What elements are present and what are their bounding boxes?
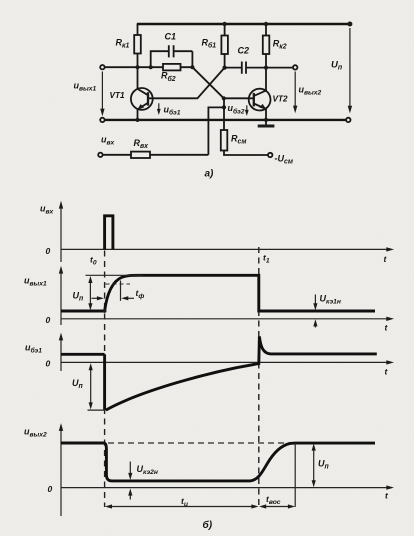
wire VT2 collector to output terminal: [266, 67, 293, 69]
svg-text:б): б): [203, 519, 213, 531]
label uбэ1: [164, 104, 181, 116]
arrow Uп D2: [88, 276, 92, 311]
svg-text:0: 0: [46, 246, 51, 256]
terminal uвых1 upper: [100, 65, 104, 69]
arrow uбэ1 measurement: [157, 103, 161, 115]
node top rail terminal (+Uп): [347, 22, 352, 27]
svg-text:0: 0: [48, 484, 53, 494]
label 0 D2: [46, 315, 51, 325]
terminal uвых2 upper: [293, 65, 297, 69]
ground: [258, 120, 275, 126]
node VT1 emitter junction: [135, 118, 139, 122]
label t D1: [384, 254, 388, 264]
waveform uвых2: [61, 443, 375, 481]
capacitor C2: [225, 62, 266, 74]
label t D4: [385, 491, 389, 501]
label uвых1 axis D2: [24, 276, 47, 288]
resistor R_к1: [134, 24, 141, 89]
wire VT2 base: [224, 97, 254, 99]
axis D1 horizontal t: [61, 247, 394, 251]
arrow tвос span: [259, 504, 295, 508]
wire tф dashed reference: [106, 283, 131, 285]
axis D3 horizontal t: [61, 360, 394, 364]
node left of C1 loop: [149, 65, 153, 69]
svg-text:VT2: VT2: [273, 94, 288, 103]
label -Uсм: [275, 153, 293, 165]
label Rсм: [231, 133, 246, 145]
label t0: [90, 255, 97, 267]
label Uп D4: [318, 459, 330, 471]
label Uкэ1н: [320, 293, 341, 305]
resistor R_б1: [221, 24, 228, 68]
label VT2: [273, 94, 288, 103]
svg-text:C2: C2: [238, 46, 250, 56]
label t D2: [385, 323, 389, 333]
terminal bottom right: [346, 118, 350, 122]
label Uп: [331, 59, 343, 71]
waveform uвых1: [61, 275, 375, 311]
terminal uвх input: [98, 153, 102, 157]
node riser junction: [222, 105, 226, 109]
axis D2 vertical: [59, 266, 63, 325]
transistor VT1: [131, 88, 153, 120]
wire tф tick: [120, 281, 122, 301]
label Uкэ2н: [137, 464, 158, 476]
node right of C1 loop: [190, 65, 194, 69]
wire collector VT1 to output terminal: [105, 66, 151, 68]
label б): [203, 519, 213, 531]
arrow uвых2 measurement: [293, 72, 297, 114]
label tи: [181, 496, 188, 508]
svg-text:а): а): [205, 169, 215, 180]
wire cross-coupling C1 node to VT2 base: [192, 67, 223, 98]
node VT2 base junction: [222, 96, 226, 100]
resistor R_к2: [263, 24, 270, 91]
node Rб1 bottom junction: [223, 66, 227, 70]
label t D3: [385, 367, 389, 377]
arrow Uп D4: [312, 444, 316, 488]
label 0 D4: [48, 484, 53, 494]
label uвых1: [74, 81, 97, 93]
wire VT2 base to Rсм: [223, 98, 225, 130]
label uбэ2: [228, 103, 245, 115]
node VT2 collector junction: [264, 66, 268, 70]
wire cross-coupling Rб1 to VT1 base: [149, 68, 225, 99]
label tф: [136, 288, 145, 300]
arrow tф left: [92, 296, 105, 300]
dashed timeline t1: [258, 247, 260, 507]
label uвых2: [299, 85, 322, 97]
arrow uбэ2 measurement: [245, 105, 249, 116]
label uбэ1 axis D3: [25, 343, 42, 355]
node VT1 collector junction: [135, 65, 139, 69]
arrow tи span: [105, 504, 259, 508]
node rise corner dot: [103, 309, 107, 313]
label VT1: [110, 91, 125, 100]
dashed timeline t0: [104, 251, 106, 508]
waveform input pulse: [105, 216, 113, 250]
arrow Uкэ2н upper: [128, 462, 132, 481]
node Rб1 top junction: [222, 22, 226, 26]
wire Uп reference extension D2: [86, 274, 144, 276]
label Uп D2: [73, 291, 85, 303]
resistor R_б2 (bottom branch): [151, 64, 193, 71]
wire bottom common rail: [105, 119, 346, 121]
dashed Uп reference level D4: [108, 442, 295, 444]
node Rк2 top junction: [264, 22, 268, 26]
arrow Uкэ1н upper: [313, 295, 317, 311]
arrow Uп supply measurement: [348, 28, 352, 113]
label uвых2 axis D4: [24, 427, 47, 439]
axis D4 horizontal t: [61, 485, 394, 489]
wire top supply rail: [137, 23, 350, 25]
arrow Uкэ2н lower: [128, 489, 132, 500]
label а): [205, 169, 215, 180]
arrow Uкэ1н lower: [313, 319, 317, 327]
label uвх: [101, 135, 115, 147]
label uвх axis D1: [40, 204, 54, 216]
label 0 D1: [46, 246, 51, 256]
waveform uбэ1: [61, 336, 377, 410]
arrow Uп D3: [89, 363, 93, 409]
label t1: [263, 253, 270, 265]
axis D1 vertical: [59, 201, 63, 262]
terminal bottom left: [100, 118, 104, 122]
svg-text:0: 0: [46, 315, 51, 325]
label C1: [165, 32, 177, 42]
label 0 D3: [46, 359, 51, 369]
capacitor C1 (top branch of speed-up pair): [151, 45, 193, 67]
axis D2 horizontal t: [61, 317, 394, 321]
transistor VT2: [249, 89, 271, 120]
label C2: [238, 46, 250, 56]
label tвос: [266, 494, 281, 506]
svg-text:C1: C1: [165, 32, 177, 42]
axis D4 vertical: [59, 423, 63, 516]
wire tвос right tick: [294, 443, 296, 507]
terminal -Uсм: [268, 153, 272, 157]
svg-text:0: 0: [46, 359, 51, 369]
resistor R_вх: [103, 152, 209, 158]
svg-text:VT1: VT1: [110, 91, 125, 100]
label Rвх: [134, 138, 150, 150]
label Rб2: [161, 71, 176, 83]
wire trigger riser to VT2 base: [208, 107, 224, 154]
resistor R_см: [221, 130, 268, 155]
arrow tф right: [121, 296, 134, 300]
arrow uвых1 measurement: [100, 72, 104, 117]
label Rб1: [202, 37, 217, 49]
label Uп D3: [72, 378, 84, 390]
wire Uп reference extension D3: [88, 409, 106, 411]
axis D3 vertical: [59, 333, 63, 371]
label Rк2: [273, 38, 287, 50]
label Rк1: [116, 38, 130, 50]
node VT2 emitter junction: [264, 118, 268, 122]
